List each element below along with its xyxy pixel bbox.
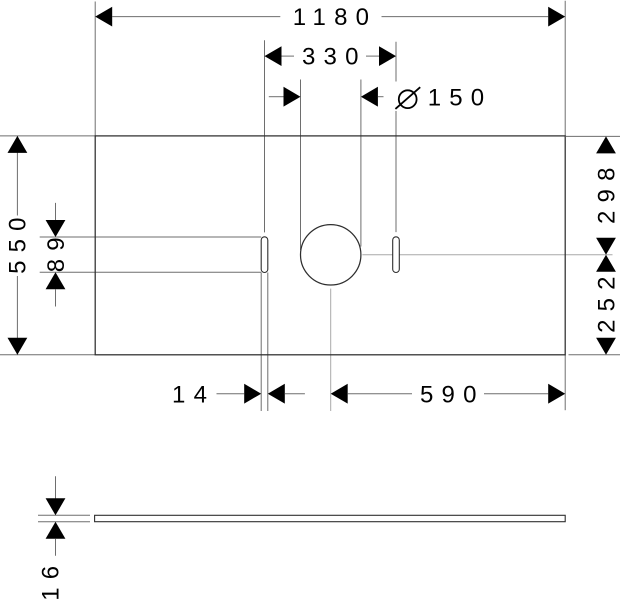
white mask behind 550 label: [7, 216, 28, 277]
dimension 298 arrow top: [596, 136, 616, 153]
extension line: plate top edge to right 298 dim: [566, 135, 620, 137]
extension line: hole right edge for diameter dim: [360, 80, 362, 247]
dimension 252 arrow bottom: [596, 338, 616, 355]
dimension 89 arrow pointing up: [46, 272, 66, 289]
dimension 16 lower tail: [55, 539, 57, 556]
plate side view bar: [95, 515, 566, 521]
dimension 550 line: [16, 136, 18, 355]
dimension dia150 tail left: [269, 96, 284, 98]
dimension dia150 arrow pointing right: [284, 87, 301, 107]
dimension 590 arrow pointing right: [548, 384, 565, 404]
svg-text:330: 330: [302, 44, 367, 71]
dimension 330 line right segment: [366, 55, 379, 57]
dimension 1180 line right segment: [382, 16, 549, 18]
dimension 550 arrow bottom: [8, 338, 28, 355]
extension line: left slot right edge down to 14 dim: [267, 273, 269, 412]
dimension arrows meeting at centreline: [596, 238, 616, 255]
dimension 590 line left segment: [348, 393, 412, 395]
extension line: plate right edge down to 590 dim: [564, 355, 566, 410]
svg-text:1180: 1180: [293, 4, 377, 31]
dimension 16 upper tail: [55, 476, 57, 498]
dimension 16 arrow pointing down: [46, 498, 66, 515]
dimension 89 upper tail: [55, 203, 57, 220]
extension line: right slot centre up to 330 dim: [395, 42, 397, 232]
dimension 1180 line left segment: [112, 16, 280, 18]
plate outline top view: [95, 136, 565, 355]
extension line: hole centre down to 590 dim: [330, 289, 332, 411]
dimension 330 arrow left: [265, 46, 282, 66]
extension line: left slot centre up to 330 dim: [264, 40, 266, 232]
dimension 1180 arrow left: [95, 7, 112, 27]
extension line: plate bottom edge to left 550 dim: [0, 354, 95, 356]
dimension 89 lower tail: [55, 289, 57, 306]
dimension 330 line left segment: [282, 55, 295, 57]
dimension 330 arrow right: [379, 46, 396, 66]
white mask behind dia150 label: [390, 82, 482, 112]
extension line: plate right edge up to 1180 dim: [564, 1, 566, 136]
dimension 14 leader line: [217, 393, 245, 395]
dimension 550 arrow top: [8, 136, 28, 153]
extension line: left slot left edge down to 14 dim: [260, 273, 262, 412]
right fixing slot: [393, 237, 400, 273]
extension line: hole left edge for diameter dim: [300, 80, 302, 251]
svg-text:150: 150: [428, 84, 493, 111]
dimension dia150 tail right: [378, 96, 384, 98]
svg-text:298: 298: [593, 159, 620, 224]
basin hole circle dia150: [301, 225, 361, 285]
dimension dia150 arrow pointing left: [361, 87, 378, 107]
dia150 diameter symbol slash: [395, 87, 420, 109]
extension line: slot top to 89 dim: [40, 236, 262, 238]
svg-text:14: 14: [172, 381, 215, 408]
svg-text:16: 16: [38, 558, 65, 601]
svg-text:550: 550: [5, 209, 32, 274]
side view: extension line at bar top to 16 dim: [38, 514, 90, 516]
dimension 89 arrow pointing down: [46, 220, 66, 237]
dimension 14 arrow pointing left: [268, 384, 285, 404]
svg-text:89: 89: [43, 229, 70, 272]
centreline through hole and right slot to 252 dim: [362, 254, 612, 256]
dimension 590 line right segment: [484, 393, 548, 395]
dimension 14 arrow pointing right: [244, 384, 261, 404]
dia150 diameter symbol circle: [399, 90, 417, 108]
left fixing slot: [261, 237, 268, 273]
dimension 14 right tail: [285, 393, 305, 395]
svg-text:590: 590: [420, 381, 485, 408]
dimension 16 arrow pointing up: [46, 522, 66, 539]
side view: extension line at bar bottom to 16 dim: [38, 521, 90, 523]
extension line: plate left edge up to 1180 dim: [94, 2, 96, 136]
extension line: plate bottom edge to right 252 dim: [569, 354, 620, 356]
dimension 590 arrow pointing left at hole centre: [331, 384, 348, 404]
extension line: slot bottom to 89 dim: [40, 271, 262, 273]
dimension 1180 arrow right: [548, 7, 565, 27]
svg-text:252: 252: [593, 268, 620, 333]
extension line: plate top edge to left 550 dim: [0, 135, 95, 137]
